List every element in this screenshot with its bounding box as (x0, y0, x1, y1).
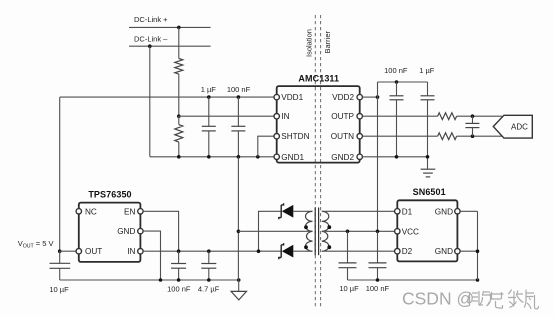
wire GND top to drop (460, 210, 477, 212)
svg-text:SN6501: SN6501 (413, 187, 446, 197)
junction GND1 rail / R2 (177, 155, 181, 159)
wire DC-Link- bus (129, 45, 211, 47)
wire 5V cold vertical (top rail to SN6501 VCC) (377, 82, 379, 231)
pin GND1 (274, 154, 279, 159)
junction diode join / IN net (257, 249, 261, 253)
wire LDO OUT (60, 250, 76, 252)
capacitor C3 100nF (VDD2) (390, 82, 404, 157)
svg-text:Isolation: Isolation (305, 29, 314, 57)
svg-text:OUTN: OUTN (331, 132, 354, 141)
pin OUT (76, 249, 81, 254)
transformer polarity dot primary bottom (327, 245, 331, 249)
pin GND bottom (SN6501) (455, 249, 460, 254)
svg-text:D2: D2 (402, 247, 413, 256)
svg-text:DC-Link +: DC-Link + (134, 15, 168, 24)
wire transformer center tap to VCC (322, 230, 395, 232)
transformer polarity dot secondary bottom (304, 245, 308, 249)
svg-text:D1: D1 (402, 207, 413, 216)
pin EN (138, 209, 143, 214)
wire R1 to IN node (178, 74, 180, 116)
wire IN net (diode output) (143, 250, 281, 252)
pin VDD2 (357, 94, 362, 99)
junction OUT / 10uF / 5V rail (58, 249, 62, 253)
junction GND1 rail / SHTDN (256, 155, 260, 159)
junction GND2 / C4 / ground (426, 155, 430, 159)
isolation barrier dashed line left (314, 15, 316, 308)
svg-text:10 µF: 10 µF (339, 284, 359, 293)
svg-text:OUT: OUT (85, 247, 102, 256)
capacitor C7 100nF (LDO in) (171, 251, 186, 280)
junction top rail / C3 (395, 80, 399, 84)
svg-text:1 µF: 1 µF (201, 85, 217, 94)
transformer T1 primary winding (322, 211, 329, 251)
wire D1 anode to transformer (293, 210, 312, 212)
pin VDD1 (274, 94, 279, 99)
junction rail / C8 (207, 278, 211, 282)
pin VCC (395, 229, 400, 234)
junction cold rail / GND drop (476, 278, 480, 282)
wire cold bottom rail (348, 279, 478, 281)
junction rail / GND drop (159, 278, 163, 282)
svg-text:Barrier: Barrier (323, 30, 332, 53)
resistor R4 (OUTN filter) (438, 133, 457, 140)
pin GND2 (357, 154, 362, 159)
junction OUTN / C5 (471, 134, 475, 138)
wire OUTP to R3 (362, 115, 437, 117)
junction VCC / C9 (346, 230, 350, 234)
svg-text:EN: EN (124, 207, 135, 216)
transformer core lines (315, 208, 318, 256)
wire IN line to AMC1311 IN pin (179, 115, 274, 117)
pin D1 (395, 209, 400, 214)
wire GND (TPS) to hot bottom rail (143, 231, 160, 280)
junction IN net / EN / C7 (177, 249, 181, 253)
svg-text:VDD1: VDD1 (281, 93, 303, 102)
block ADC (493, 115, 532, 138)
wire D2 anode to transformer (293, 250, 312, 252)
pin IN (274, 114, 279, 119)
wire diode D1 cathode join (259, 211, 282, 251)
capacitor C1 1uF (VDD1) (202, 97, 216, 157)
svg-text:VCC: VCC (402, 227, 419, 236)
capacitor C6 10uF (LDO out) (50, 251, 71, 280)
pin GND top (SN6501) (455, 209, 460, 214)
wire OUTN to R4 (362, 135, 437, 137)
wire R3 to ADC (457, 115, 502, 117)
svg-text:GND: GND (435, 207, 453, 216)
svg-text:OUTP: OUTP (331, 112, 354, 121)
transformer polarity dot primary top (327, 225, 331, 229)
wire IN node to R2 (178, 116, 180, 124)
wire transformer to D1 pin (322, 210, 395, 212)
op-amp U1 AMC1311 body (277, 86, 360, 163)
svg-text:GND2: GND2 (331, 153, 354, 162)
resistor R3 (OUTP filter) (438, 113, 457, 120)
pin D2 (395, 249, 400, 254)
svg-text:ADC: ADC (511, 122, 528, 131)
junction rail / C7 (177, 278, 181, 282)
svg-text:10 µF: 10 µF (49, 285, 69, 294)
junction on DC-Link- (148, 44, 152, 48)
wire DC-Link+ bus (129, 26, 211, 28)
pin GND (TPS) (138, 228, 143, 233)
wire DC-Link- down to GND1 rail (149, 46, 151, 157)
svg-text:GND1: GND1 (281, 153, 304, 162)
wire 5V left rail (VDD1 to LDO OUT) (59, 97, 61, 251)
junction VDD1/C2 (237, 95, 241, 99)
wire GND2 line (362, 156, 427, 158)
junction IN net / C8 (207, 249, 211, 253)
junction GND2 / C3 (395, 155, 399, 159)
svg-text:100 nF: 100 nF (227, 85, 251, 94)
transformer polarity dot secondary top (304, 225, 308, 229)
node IN junction (177, 114, 181, 118)
junction cold rail / C10 (376, 278, 380, 282)
pin OUTN (357, 134, 362, 139)
pin NC (76, 209, 81, 214)
svg-text:100 nF: 100 nF (167, 285, 191, 294)
svg-text:NC: NC (85, 207, 97, 216)
capacitor C4 1uF (VDD2) (421, 82, 435, 169)
capacitor C8 4.7uF (LDO in) (201, 251, 216, 280)
resistor R2 (divider bottom) (175, 125, 183, 142)
diode D2 (Schottky, bottom) (279, 243, 293, 259)
capacitor C10 100nF (SN6501) (369, 231, 387, 280)
ground (hot side, hollow triangle) (231, 280, 246, 300)
svg-text:SHTDN: SHTDN (281, 132, 309, 141)
junction on DC-Link+ (177, 26, 181, 30)
svg-text:4.7 µF: 4.7 µF (198, 285, 220, 294)
resistor R1 (divider top) (175, 59, 183, 75)
junction OUTP / C5 (471, 114, 475, 118)
wire GND drop vertical (477, 211, 479, 280)
wire GND1 rail (150, 156, 274, 158)
junction VDD2 / 5V vertical (376, 95, 380, 99)
svg-text:CSDN @: CSDN @ (402, 289, 474, 309)
wire hot bottom rail (60, 279, 239, 281)
pin SHTDN (274, 134, 279, 139)
junction GND1 rail / C2 (237, 155, 241, 159)
wire VDD2 to 5V cold rail (362, 96, 377, 98)
ground GND2 (3-bar earth) (421, 169, 436, 177)
wire DC-Link+ down to R1 (178, 27, 180, 58)
junction center tap T (237, 230, 241, 234)
diode D1 (Schottky, top) (279, 203, 293, 219)
wire transformer to D2 pin (322, 250, 395, 252)
pin OUTP (357, 114, 362, 119)
junction rail / ground (237, 278, 241, 282)
svg-text:100 nF: 100 nF (384, 66, 408, 75)
wire GND1 to transformer center tap / ground (237, 157, 239, 280)
watermark CJK glyphs (drawn) (470, 290, 539, 310)
svg-text:GND: GND (117, 227, 135, 236)
wire VDD1 line (60, 96, 274, 98)
svg-text:IN: IN (281, 112, 289, 121)
transformer T1 secondary winding (306, 211, 313, 251)
regulator U2 TPS76350 body (79, 203, 141, 262)
driver U3 SN6501 body (397, 200, 457, 261)
svg-text:TPS76350: TPS76350 (88, 189, 131, 199)
svg-text:DC-Link –: DC-Link – (134, 35, 168, 44)
wire SHTDN to GND1 rail (258, 136, 274, 157)
capacitor C2 100nF (VDD1) (231, 97, 245, 157)
pin IN (TPS) (138, 249, 143, 254)
wire center tap lead (secondary) (238, 230, 312, 232)
svg-text:100 nF: 100 nF (366, 284, 390, 293)
svg-text:VDD2: VDD2 (332, 93, 354, 102)
wire R2 to GND1 rail (178, 142, 180, 157)
svg-text:1 µF: 1 µF (419, 66, 435, 75)
svg-text:AMC1311: AMC1311 (298, 74, 339, 84)
junction VCC / C10 / 5V (376, 230, 380, 234)
svg-text:IN: IN (127, 247, 135, 256)
capacitor C5 (differential filter) (465, 116, 479, 136)
wire R4 to ADC (457, 135, 502, 137)
junction GND1 rail / C1 (207, 155, 211, 159)
svg-text:GND: GND (435, 247, 453, 256)
junction GND drop (476, 249, 480, 253)
isolation barrier dashed line right (320, 15, 322, 308)
capacitor C9 10uF (SN6501) (339, 231, 357, 280)
svg-text:VOUT = 5 V: VOUT = 5 V (18, 239, 54, 250)
wire cold top rail (378, 81, 428, 83)
junction VDD1/C1 (207, 95, 211, 99)
wire EN loop to IN net (143, 211, 179, 251)
wire GND bottom to drop (460, 250, 477, 252)
